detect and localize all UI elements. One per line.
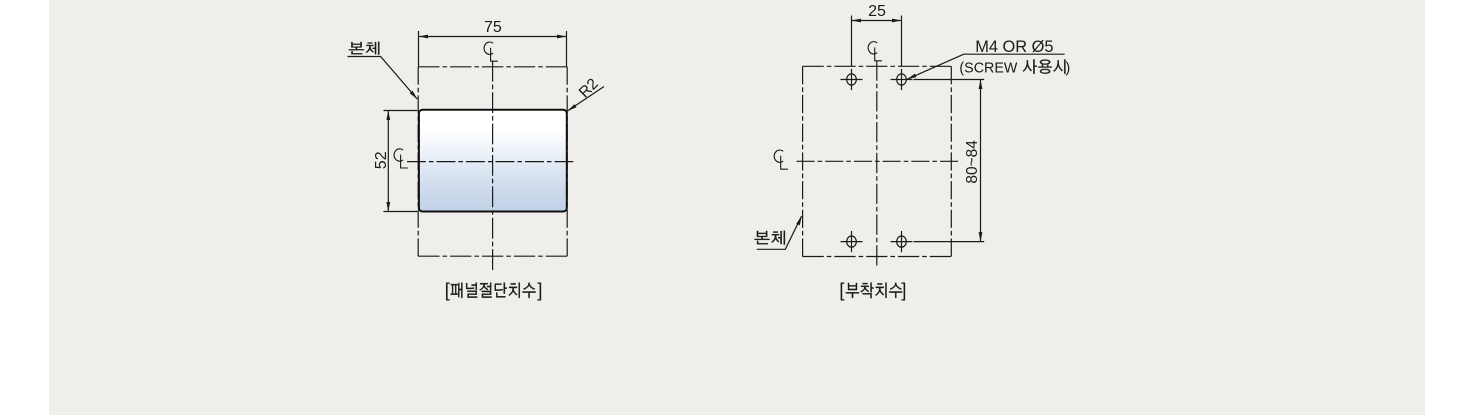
leader line for M4 label: [907, 54, 963, 79]
svg-text:]: ]: [537, 280, 542, 301]
horizontal center line: [797, 160, 959, 162]
label bonche (left) hangul: [349, 42, 379, 55]
svg-text:]: ]: [901, 280, 906, 301]
dashed phantom box (panel outline): [418, 66, 567, 68]
dimension 52: top arrowhead: [386, 111, 390, 121]
centre-line symbol left: [774, 150, 788, 169]
leader line for R2: [568, 87, 604, 111]
dimension 80~84: line: [980, 80, 982, 242]
svg-text:52: 52: [373, 151, 390, 169]
R2 leader arrowhead: [568, 104, 577, 111]
centre-line symbol top: [484, 42, 498, 61]
dimension 52: extension lines: [383, 110, 417, 112]
leader line for body label (right): [757, 216, 802, 249]
dimension 75: extension lines: [418, 31, 420, 67]
screw hole bottom-right: [891, 231, 913, 252]
hangul: sayongsi: [1023, 59, 1066, 73]
dimension 25: left arrowhead: [852, 19, 862, 23]
screw hole top-right: [891, 69, 913, 90]
svg-text:[: [: [445, 280, 451, 301]
leader line for body label (left): [348, 57, 418, 100]
screw hole top-left: [841, 69, 863, 90]
dimension 75: left arrowhead: [419, 35, 429, 39]
svg-text:25: 25: [868, 3, 886, 20]
dimension 25: right arrowhead: [892, 19, 902, 23]
svg-text:): ): [1066, 61, 1071, 77]
body leader arrowhead (left drawing): [410, 91, 418, 99]
label bonche (right) hangul: [754, 231, 784, 245]
vertical center line: [876, 61, 878, 266]
centre-line symbol top: [868, 42, 882, 61]
svg-text:(SCREW: (SCREW: [959, 61, 1017, 77]
dimension 80~84: top arrowhead: [979, 80, 983, 90]
dashed phantom box (body outline): [803, 65, 952, 67]
dimension 80~84: bottom arrowhead: [979, 232, 983, 242]
dimension 75: right arrowhead: [557, 35, 567, 39]
svg-text:80~84: 80~84: [964, 140, 981, 184]
screw hole bottom-left: [841, 231, 863, 252]
dimension 25: extension lines: [851, 16, 853, 67]
cutout rectangle 75x52 with gradient: [419, 110, 567, 212]
dimension 80~84: extension lines: [914, 79, 985, 81]
dimension 75: line: [419, 36, 567, 38]
svg-text:M4 OR Ø5: M4 OR Ø5: [975, 38, 1053, 56]
dimension 52: line: [387, 111, 389, 212]
centre-line symbol left: [394, 149, 408, 168]
M4 leader arrowhead: [907, 74, 916, 80]
horizontal center line: [407, 161, 573, 163]
body leader arrowhead (right drawing): [796, 216, 802, 226]
M4 label underline: [963, 53, 1065, 55]
vertical center line: [492, 61, 494, 270]
svg-text:R2: R2: [576, 75, 602, 101]
svg-text:75: 75: [484, 19, 502, 36]
dimension 52: bottom arrowhead: [386, 202, 390, 212]
svg-text:[: [: [839, 280, 845, 301]
dimension 25: line: [852, 20, 902, 22]
